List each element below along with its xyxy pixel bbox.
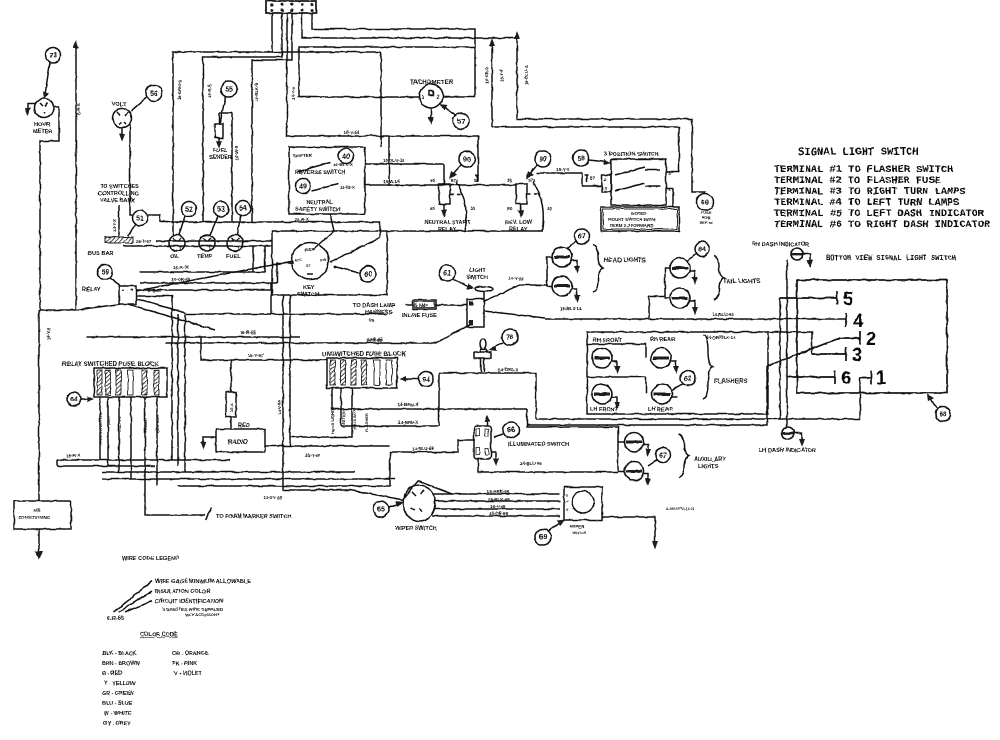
- svg-text:TO DASH LAMP: TO DASH LAMP: [353, 303, 396, 309]
- svg-text:RELAY SWITCHED FUSE BLOCK: RELAY SWITCHED FUSE BLOCK: [62, 361, 159, 368]
- svg-text:68: 68: [939, 412, 947, 419]
- svg-text:Y - YELLOW: Y - YELLOW: [104, 681, 136, 687]
- svg-text:14-BLU-64: 14-BLU-64: [712, 312, 734, 317]
- svg-text:NEUTRAL: NEUTRAL: [306, 200, 333, 206]
- svg-text:TO FOAM MARKER SWITCH: TO FOAM MARKER SWITCH: [216, 514, 291, 520]
- svg-text:RED: RED: [238, 423, 250, 429]
- svg-text:RH DASH INDICATOR: RH DASH INDICATOR: [752, 242, 810, 248]
- svg-text:GY - GREY: GY - GREY: [103, 721, 131, 727]
- svg-text:16-Y-67: 16-Y-67: [248, 353, 264, 358]
- svg-text:16-OR-69: 16-OR-69: [489, 511, 509, 516]
- svg-text:COLOR CODE: COLOR CODE: [140, 632, 178, 638]
- svg-text:AUXILLARY: AUXILLARY: [694, 457, 726, 463]
- svg-text:OR - ORANGE: OR - ORANGE: [172, 651, 209, 657]
- svg-text:ILLUMINATED SWITCH: ILLUMINATED SWITCH: [508, 442, 569, 448]
- svg-text:WIRE CODE LEGEND: WIRE CODE LEGEND: [122, 556, 179, 562]
- svg-text:SIGNAL LIGHT SWITCH: SIGNAL LIGHT SWITCH: [798, 147, 919, 159]
- svg-text:85: 85: [430, 206, 435, 211]
- svg-text:16-R-X: 16-R-X: [66, 453, 80, 458]
- svg-text:16-BLK-69: 16-BLK-69: [488, 497, 510, 502]
- svg-text:14-OR/BLK-14: 14-OR/BLK-14: [706, 335, 736, 340]
- svg-text:MOTOR: MOTOR: [572, 531, 586, 535]
- svg-text:METER: METER: [33, 129, 53, 135]
- svg-text:2: 2: [436, 95, 439, 101]
- svg-text:FUEL: FUEL: [213, 148, 228, 154]
- svg-text:14-R-65: 14-R-65: [366, 338, 382, 343]
- svg-text:SWITCH: SWITCH: [466, 275, 488, 281]
- svg-text:1: 1: [421, 95, 424, 101]
- svg-text:VALVE BANK: VALVE BANK: [100, 198, 136, 204]
- svg-text:90: 90: [539, 157, 547, 164]
- svg-text:16-R-65: 16-R-65: [240, 330, 256, 335]
- svg-text:INSULATION COLOR: INSULATION COLOR: [155, 589, 211, 595]
- svg-text:95: 95: [507, 178, 512, 183]
- svg-text:NEUTRAL START: NEUTRAL START: [424, 220, 471, 226]
- svg-text:14-V-65: 14-V-65: [277, 400, 282, 415]
- svg-text:16-R-9: 16-R-9: [207, 84, 212, 98]
- svg-text:TO SWITCHES: TO SWITCHES: [100, 184, 139, 190]
- svg-text:A-05029702-14-01: A-05029702-14-01: [666, 507, 695, 511]
- svg-text:90: 90: [463, 157, 471, 164]
- svg-text:64: 64: [70, 397, 78, 404]
- svg-text:CONDITIONING: CONDITIONING: [18, 515, 51, 520]
- svg-text:40: 40: [342, 154, 350, 161]
- svg-text:X DENOTES WIRE SUPPLIED: X DENOTES WIRE SUPPLIED: [162, 607, 223, 612]
- svg-text:SAFETY SWITCH: SAFETY SWITCH: [295, 207, 341, 213]
- svg-text:14-Y-X: 14-Y-X: [112, 219, 117, 232]
- svg-text:RH REAR: RH REAR: [650, 337, 675, 343]
- svg-text:6-R-65: 6-R-65: [107, 616, 124, 622]
- svg-text:16-Y-54: 16-Y-54: [344, 130, 360, 135]
- svg-text:14-Y-9: 14-Y-9: [291, 87, 296, 100]
- svg-text:W - WHITE: W - WHITE: [104, 711, 132, 717]
- svg-text:60: 60: [364, 272, 372, 279]
- svg-text:49: 49: [299, 184, 307, 191]
- svg-text:16-W-14: 16-W-14: [383, 179, 400, 184]
- svg-text:16-BRN-69: 16-BRN-69: [487, 489, 510, 494]
- svg-text:16-Y-4: 16-Y-4: [499, 69, 504, 82]
- svg-text:52: 52: [185, 207, 193, 214]
- svg-text:16-BLK-X: 16-BLK-X: [333, 162, 353, 167]
- svg-text:TERM 2,3 FORWARD: TERM 2,3 FORWARD: [610, 223, 654, 228]
- svg-text:16-BLU-14: 16-BLU-14: [383, 158, 405, 163]
- svg-text:16-BLU-14: 16-BLU-14: [560, 306, 582, 311]
- svg-text:BAT: BAT: [305, 247, 313, 252]
- svg-text:16-Y-65: 16-Y-65: [305, 453, 321, 458]
- svg-text:14-BRN-X: 14-BRN-X: [398, 402, 418, 407]
- svg-text:GR - GREEN: GR - GREEN: [102, 691, 134, 697]
- svg-text:16-BLK-9: 16-BLK-9: [254, 82, 259, 102]
- svg-text:ST: ST: [306, 264, 311, 268]
- svg-text:RELAY: RELAY: [82, 287, 101, 293]
- svg-text:AIR: AIR: [33, 508, 41, 513]
- svg-text:BRN - BROWN: BRN - BROWN: [102, 661, 140, 667]
- svg-text:14-BRN-X: 14-BRN-X: [398, 420, 418, 425]
- svg-text:14-BRN-X: 14-BRN-X: [498, 367, 518, 372]
- svg-text:TAIL LIGHTS: TAIL LIGHTS: [723, 278, 761, 285]
- svg-text:VOLT: VOLT: [112, 102, 127, 108]
- svg-text:1: 1: [876, 367, 886, 388]
- svg-text:RELAY: RELAY: [509, 227, 528, 233]
- svg-text:TEMP: TEMP: [197, 254, 213, 260]
- svg-text:SHIFTER: SHIFTER: [293, 153, 313, 158]
- svg-text:2: 2: [866, 328, 876, 349]
- svg-text:16-V-69: 16-V-69: [490, 504, 506, 509]
- svg-text:16-BRN-9: 16-BRN-9: [177, 80, 182, 100]
- svg-text:4: 4: [853, 310, 864, 331]
- svg-text:3: 3: [852, 344, 862, 365]
- svg-text:69: 69: [701, 200, 709, 207]
- svg-text:14-BLU-69: 14-BLU-69: [520, 461, 542, 466]
- svg-text:ACC: ACC: [294, 258, 302, 262]
- svg-text:87: 87: [590, 176, 595, 181]
- svg-text:90: 90: [507, 206, 512, 211]
- svg-text:REVERSE SWITCH: REVERSE SWITCH: [295, 170, 345, 176]
- svg-text:59: 59: [101, 270, 109, 277]
- svg-text:SWITCH: SWITCH: [297, 292, 319, 298]
- svg-text:16-OR-65: 16-OR-65: [171, 277, 191, 282]
- svg-text:64: 64: [422, 377, 430, 384]
- svg-text:16-Y-X: 16-Y-X: [556, 167, 569, 172]
- svg-text:HEAD LIGHTS: HEAD LIGHTS: [330, 407, 335, 434]
- svg-text:REV. LOW: REV. LOW: [505, 220, 533, 226]
- svg-text:61: 61: [443, 271, 451, 278]
- svg-text:65: 65: [377, 507, 385, 514]
- svg-text:HOUR: HOUR: [34, 122, 50, 128]
- svg-text:FLASHER: FLASHER: [364, 413, 369, 432]
- svg-text:62: 62: [684, 376, 692, 383]
- svg-text:30: 30: [470, 206, 475, 211]
- svg-text:51: 51: [136, 216, 144, 223]
- svg-text:30: 30: [547, 206, 552, 211]
- svg-text:73: 73: [49, 53, 57, 60]
- svg-text:55: 55: [225, 87, 233, 94]
- svg-text:CIRCUIT IDENTIFICATION: CIRCUIT IDENTIFICATION: [155, 599, 224, 605]
- svg-text:UNSWITCHED FUSE BLOCK: UNSWITCHED FUSE BLOCK: [322, 351, 406, 358]
- svg-text:67: 67: [578, 234, 586, 241]
- svg-text:R - RED: R - RED: [102, 671, 122, 677]
- svg-text:87a: 87a: [528, 178, 536, 183]
- svg-text:5: 5: [843, 288, 853, 309]
- svg-text:HEAD LIGHTS: HEAD LIGHTS: [604, 257, 646, 264]
- svg-text:87a: 87a: [451, 178, 459, 183]
- svg-text:66: 66: [507, 428, 515, 435]
- svg-text:86: 86: [430, 178, 435, 183]
- svg-text:WIRE GAGE MINIMUM ALLOWABLE: WIRE GAGE MINIMUM ALLOWABLE: [155, 579, 251, 585]
- svg-text:WITH ACCESSORY: WITH ACCESSORY: [185, 613, 220, 617]
- svg-text:WIPER: WIPER: [570, 524, 585, 529]
- svg-text:NOTED: NOTED: [631, 211, 646, 216]
- svg-text:SENDER: SENDER: [209, 155, 232, 161]
- svg-text:BLU - BLUE: BLU - BLUE: [102, 701, 133, 707]
- svg-text:16-BLU-4: 16-BLU-4: [524, 65, 529, 85]
- svg-text:53: 53: [217, 207, 225, 214]
- svg-text:KEY: KEY: [303, 285, 315, 291]
- svg-text:57: 57: [457, 119, 465, 126]
- svg-text:OIL: OIL: [170, 254, 180, 260]
- svg-text:54: 54: [239, 206, 247, 213]
- svg-text:FUSE: FUSE: [701, 211, 712, 215]
- svg-text:REF 58: REF 58: [700, 221, 713, 225]
- svg-text:RADIO: RADIO: [228, 439, 248, 446]
- svg-text:LH FRONT: LH FRONT: [590, 407, 619, 413]
- svg-text:BUS BAR: BUS BAR: [88, 251, 113, 257]
- svg-text:BLK - BLACK: BLK - BLACK: [102, 651, 137, 657]
- svg-text:IGN: IGN: [320, 258, 327, 262]
- svg-text:16-GR-9: 16-GR-9: [484, 67, 489, 84]
- svg-text:67: 67: [659, 453, 667, 460]
- svg-text:16-R-36: 16-R-36: [173, 265, 189, 270]
- svg-text:LH REAR: LH REAR: [648, 407, 673, 413]
- svg-text:PK - PINK: PK - PINK: [172, 661, 197, 667]
- svg-text:LH DASH INDICATOR: LH DASH INDICATOR: [759, 448, 816, 454]
- svg-text:3 POSITION SWITCH: 3 POSITION SWITCH: [604, 152, 659, 158]
- svg-text:WIPER SWITCH: WIPER SWITCH: [395, 526, 437, 532]
- svg-text:RH FRONT: RH FRONT: [593, 338, 622, 344]
- svg-text:6-B-38: 6-B-38: [148, 288, 162, 293]
- svg-text:LIGHTS: LIGHTS: [698, 464, 719, 470]
- svg-text:58: 58: [577, 156, 585, 163]
- svg-text:5 AMP: 5 AMP: [415, 303, 428, 308]
- svg-text:84: 84: [698, 247, 706, 254]
- svg-text:TERMINAL #6 TO RIGHT DASH INDI: TERMINAL #6 TO RIGHT DASH INDICATOR: [774, 219, 991, 231]
- svg-text:MOUNT SWITCH WITH: MOUNT SWITCH WITH: [608, 217, 655, 222]
- svg-text:6-R-X: 6-R-X: [76, 103, 81, 115]
- svg-text:16-W-X: 16-W-X: [340, 185, 355, 190]
- svg-text:INLINE FUSE: INLINE FUSE: [402, 313, 437, 319]
- svg-text:14-GY-65: 14-GY-65: [263, 495, 282, 500]
- svg-text:16-Y-67: 16-Y-67: [136, 239, 152, 244]
- svg-text:FOR: FOR: [702, 216, 710, 220]
- svg-text:56: 56: [150, 91, 158, 98]
- svg-text:14-Y-69: 14-Y-69: [508, 276, 524, 281]
- svg-text:15 A: 15 A: [229, 404, 234, 412]
- svg-text:HARNESS: HARNESS: [365, 310, 393, 316]
- svg-text:LIGHT: LIGHT: [469, 268, 486, 274]
- svg-text:16-W-9: 16-W-9: [234, 145, 239, 160]
- svg-text:16-Y-9: 16-Y-9: [46, 327, 51, 340]
- svg-text:V - VIOLET: V - VIOLET: [174, 671, 203, 677]
- svg-text:76: 76: [506, 335, 514, 342]
- svg-text:69: 69: [539, 535, 547, 542]
- svg-text:FLASHERS: FLASHERS: [714, 378, 747, 385]
- svg-text:14-BLU-69: 14-BLU-69: [412, 446, 434, 451]
- svg-text:RELAY: RELAY: [438, 227, 457, 233]
- svg-text:FUEL: FUEL: [226, 254, 241, 260]
- svg-text:BOTTOM VIEW SIGNAL LIGHT SWITC: BOTTOM VIEW SIGNAL LIGHT SWITCH: [826, 255, 956, 263]
- svg-text:69: 69: [369, 318, 374, 323]
- svg-text:CONTROLLING: CONTROLLING: [98, 191, 139, 197]
- svg-text:6: 6: [841, 367, 851, 388]
